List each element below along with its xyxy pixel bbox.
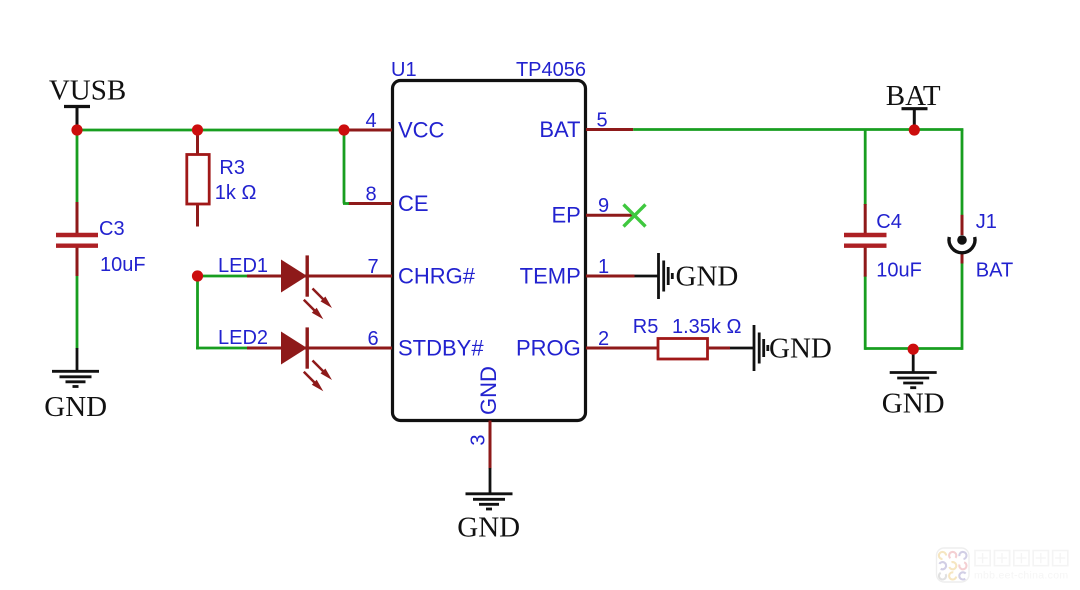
svg-text:10uF: 10uF bbox=[100, 254, 146, 276]
svg-text:LED2: LED2 bbox=[218, 327, 268, 349]
svg-text:BAT: BAT bbox=[976, 260, 1013, 282]
svg-text:R3: R3 bbox=[219, 157, 245, 179]
svg-text:BAT: BAT bbox=[539, 117, 580, 142]
svg-text:BAT: BAT bbox=[886, 80, 941, 112]
svg-text:R5: R5 bbox=[633, 316, 659, 338]
svg-text:GND: GND bbox=[44, 391, 107, 423]
svg-text:U1: U1 bbox=[391, 59, 417, 81]
svg-text:TP4056: TP4056 bbox=[516, 59, 586, 81]
svg-text:J1: J1 bbox=[976, 211, 997, 233]
svg-text:GND: GND bbox=[457, 512, 520, 544]
svg-text:10uF: 10uF bbox=[876, 260, 922, 282]
svg-text:GND: GND bbox=[476, 366, 501, 415]
svg-text:C4: C4 bbox=[876, 211, 902, 233]
svg-text:1k Ω: 1k Ω bbox=[215, 182, 257, 204]
svg-text:GND: GND bbox=[882, 388, 945, 420]
svg-text:VCC: VCC bbox=[398, 118, 445, 143]
svg-text:GND: GND bbox=[676, 261, 739, 293]
svg-text:1.35k Ω: 1.35k Ω bbox=[672, 316, 741, 338]
svg-text:9: 9 bbox=[598, 195, 609, 217]
svg-text:EP: EP bbox=[551, 203, 580, 228]
svg-text:VUSB: VUSB bbox=[49, 75, 126, 107]
svg-text:mbb.eet-china.com: mbb.eet-china.com bbox=[974, 570, 1068, 582]
svg-text:3: 3 bbox=[468, 434, 490, 445]
svg-text:CHRG#: CHRG# bbox=[398, 264, 476, 289]
svg-text:CE: CE bbox=[398, 191, 429, 216]
svg-text:STDBY#: STDBY# bbox=[398, 336, 484, 361]
svg-text:PROG: PROG bbox=[516, 336, 581, 361]
svg-text:LED1: LED1 bbox=[218, 255, 268, 277]
svg-text:C3: C3 bbox=[99, 218, 125, 240]
svg-text:GND: GND bbox=[769, 332, 832, 364]
svg-text:TEMP: TEMP bbox=[520, 264, 581, 289]
